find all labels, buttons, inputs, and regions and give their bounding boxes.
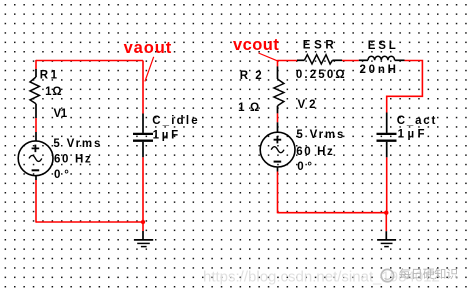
svg-text:1µF: 1µF [398, 129, 428, 141]
leader line for vaout [145, 57, 154, 82]
svg-text:R1: R1 [40, 70, 60, 82]
wire: ESR to ESL [342, 60, 359, 62]
junction node left [141, 220, 145, 224]
leader line for vcout [259, 53, 278, 61]
svg-text:5 Vrms: 5 Vrms [296, 129, 345, 141]
capacitor C_act [377, 113, 397, 158]
watermark: text 每日硬知识 [399, 268, 457, 279]
wire: V2 to bottom rail right [277, 172, 279, 214]
svg-text:1Ω: 1Ω [238, 102, 265, 114]
watermark: logo circle [381, 269, 393, 281]
svg-text:60 Hz: 60 Hz [54, 153, 92, 165]
wire: V1 to bottom rail [35, 180, 37, 223]
svg-text:1µF: 1µF [153, 129, 181, 141]
wire: node to ESR [278, 60, 298, 62]
wire: junction to ground right [385, 213, 387, 232]
svg-text:60 Hz: 60 Hz [296, 146, 334, 158]
wire: left drop from corner to R1 [35, 60, 37, 69]
resistor R1 [30, 69, 39, 118]
svg-text:R2: R2 [240, 70, 269, 82]
wire: node down to R2 [277, 60, 279, 67]
wire: R2 to V2 [277, 113, 279, 122]
wire: capacitor to junction [142, 157, 144, 231]
source V1 (AC symbol) [18, 132, 53, 180]
source V2 (AC symbol) [260, 122, 295, 171]
svg-text:5 Vrms: 5 Vrms [53, 138, 102, 150]
wire: bottom rail left [36, 221, 143, 223]
svg-text:0.250Ω: 0.250Ω [296, 69, 347, 81]
svg-text:ESR: ESR [303, 40, 337, 52]
svg-text:vcout: vcout [233, 36, 279, 54]
svg-text:V2: V2 [298, 99, 320, 111]
svg-text:20nH: 20nH [360, 64, 399, 76]
svg-text:vaout: vaout [124, 39, 173, 57]
wire: R1 to V1 [35, 118, 37, 132]
svg-text:0°: 0° [54, 169, 73, 181]
resistor R2 [274, 66, 284, 113]
svg-text:C_idle: C_idle [152, 115, 200, 127]
svg-text:1Ω: 1Ω [45, 86, 62, 98]
inductor ESL [359, 56, 405, 60]
ground left [134, 231, 153, 247]
junction node right [384, 211, 388, 215]
wire: C_act branch to junction [386, 157, 388, 213]
svg-text:C_act: C_act [397, 115, 437, 127]
svg-text:ESL: ESL [368, 40, 399, 52]
wire: top rail left (vaout net) [36, 60, 143, 62]
ground right [377, 231, 396, 246]
svg-text:0°: 0° [297, 161, 316, 173]
svg-text:V1: V1 [54, 108, 68, 120]
wire: bottom rail right [278, 212, 387, 214]
wire: ESL to C_act jog [387, 61, 423, 113]
capacitor C_idle [133, 114, 153, 158]
wire: capacitor branch upper [142, 61, 144, 114]
resistor ESR [297, 55, 342, 64]
